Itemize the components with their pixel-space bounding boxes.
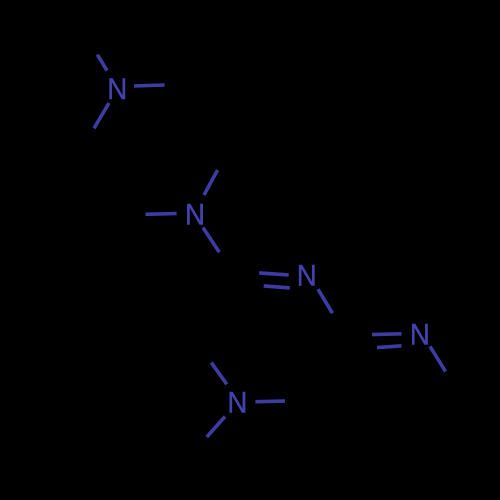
wire bond N1'-C2' xyxy=(204,170,218,195)
wire bond N1'-C2 xyxy=(203,228,219,253)
wire bond N5-C4a xyxy=(211,363,227,385)
wire bond N4'-C3' xyxy=(134,85,165,86)
svg-text:N: N xyxy=(410,319,430,352)
svg-text:N: N xyxy=(107,73,127,106)
svg-text:N: N xyxy=(297,260,317,293)
wire bond Npy-C7 xyxy=(430,346,446,371)
wire double bond C2=N3 main line xyxy=(259,273,289,275)
wire bond N3-C8a xyxy=(318,289,332,313)
svg-text:N: N xyxy=(185,198,205,231)
wire double bond C2=N3 inner line xyxy=(264,286,290,288)
wire bond N4'-CH3 (methyl stub) xyxy=(97,55,107,71)
wire double bond C8a=Npy inner line xyxy=(377,346,402,348)
wire double bond C8a=Npy main line xyxy=(372,332,402,336)
wire bond N5-CH3 (methyl stub) xyxy=(207,417,225,437)
wire bond N4'-C5' xyxy=(94,103,109,128)
wire bond N5-C6 xyxy=(255,399,285,403)
svg-text:N: N xyxy=(227,387,247,420)
wire bond N1'-C6' xyxy=(146,212,177,216)
